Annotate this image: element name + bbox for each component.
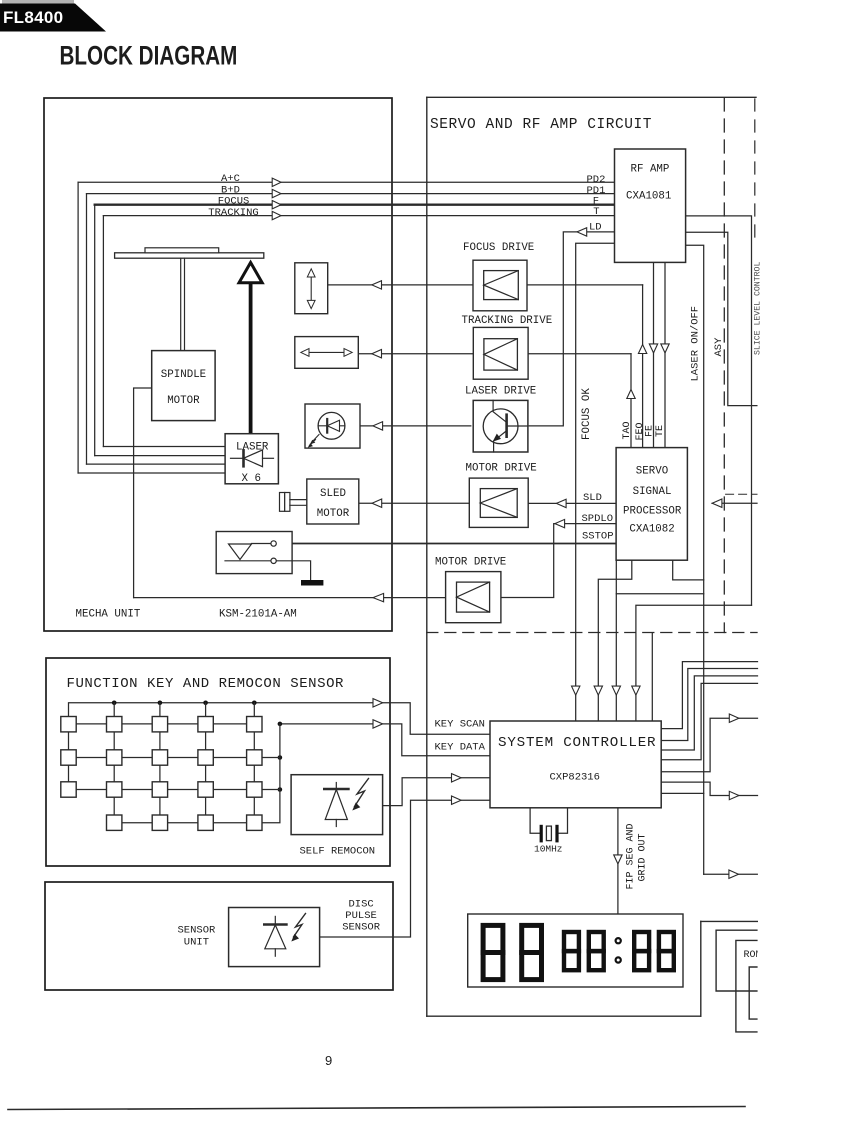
LD wire transistor to RF amp — [529, 232, 614, 426]
servo circuit boundary left vertical (solid, runs to FIP enclosure bottom) — [426, 97, 428, 1016]
controller output 6 — [661, 782, 757, 795]
matrix connector horizontals — [76, 724, 246, 823]
FIP enclosure link to ROM area — [701, 920, 758, 922]
branch from servo corner to right riser — [616, 593, 703, 595]
svg-text:RF AMP: RF AMP — [631, 164, 670, 176]
RF output B — [686, 232, 757, 405]
wire to laser pin3 — [87, 463, 226, 465]
transistor Q1 — [483, 409, 518, 444]
arrow line2 down — [594, 686, 602, 695]
FEO riser — [642, 285, 644, 448]
arrow TRACKING — [272, 211, 281, 219]
arrow LD — [577, 228, 587, 236]
wire to laser pin4 — [78, 472, 225, 474]
arrow A+C — [272, 178, 281, 186]
svg-text:B+D: B+D — [221, 184, 240, 196]
svg-text:PULSE: PULSE — [345, 910, 377, 922]
tracking drive box — [473, 327, 528, 379]
arrow LD into laser diode — [373, 422, 383, 430]
laser beam path (bold) — [249, 280, 253, 434]
svg-text:SLICE LEVEL CONTROL: SLICE LEVEL CONTROL — [754, 262, 763, 355]
svg-text:MOTOR: MOTOR — [167, 395, 200, 407]
disc pulse photodiode D2 — [274, 916, 276, 924]
arrow TAO up — [627, 390, 635, 399]
motor drive 1 box — [469, 478, 528, 527]
RF AMP box — [615, 149, 686, 262]
arrow KEY DATA — [373, 720, 383, 728]
arrow sled drive — [372, 499, 382, 507]
svg-text:SPINDLE: SPINDLE — [161, 369, 206, 381]
svg-text:SIGNAL: SIGNAL — [633, 486, 672, 498]
arrow spindle drive — [373, 593, 384, 601]
spindle shaft — [180, 258, 182, 350]
controller output 4 — [661, 683, 757, 759]
svg-text:KSM-2101A-AM: KSM-2101A-AM — [219, 609, 297, 621]
controller output 2 — [661, 669, 757, 741]
laser diode emission arrows — [312, 435, 320, 443]
svg-text:9: 9 — [325, 1053, 332, 1068]
svg-text:TRACKING DRIVE: TRACKING DRIVE — [462, 315, 553, 327]
servo circuit boundary top — [427, 96, 756, 98]
arrow disc pulse — [452, 796, 462, 804]
svg-text:FUNCTION KEY AND REMOCON SENSO: FUNCTION KEY AND REMOCON SENSOR — [67, 676, 345, 692]
svg-text:MOTOR DRIVE: MOTOR DRIVE — [466, 463, 537, 475]
svg-text:SYSTEM CONTROLLER: SYSTEM CONTROLLER — [498, 735, 656, 751]
servo signal processor box — [616, 448, 687, 561]
servo circuit dashed right edge (ASY boundary) — [723, 98, 725, 633]
focus drive box — [473, 260, 527, 311]
svg-text:SELF REMOCON: SELF REMOCON — [300, 846, 376, 858]
svg-text:A+C: A+C — [221, 173, 240, 185]
digit 3 (small 8) — [564, 932, 579, 951]
FIP display box — [468, 914, 683, 987]
servo stub to controller line2 — [598, 560, 632, 721]
arrow line4 down — [632, 686, 640, 695]
svg-text:SERVO AND RF AMP CIRCUIT: SERVO AND RF AMP CIRCUIT — [430, 117, 652, 133]
arrow remocon — [452, 774, 462, 782]
svg-text:LASER DRIVE: LASER DRIVE — [465, 386, 536, 398]
svg-text:FIP SEG AND: FIP SEG AND — [626, 823, 637, 889]
RF-return line to controller line4 — [636, 605, 752, 721]
mecha unit outer box — [44, 98, 392, 631]
svg-text:10MHz: 10MHz — [534, 844, 563, 855]
laser diode symbol — [231, 457, 244, 459]
svg-text:GRID OUT: GRID OUT — [638, 833, 649, 881]
RF output A to slice level — [686, 216, 752, 605]
controller output 7 joining right bus — [661, 792, 704, 794]
arrow FOCUS OK down — [572, 686, 580, 695]
sled motor box — [307, 479, 359, 524]
svg-text:SSTOP: SSTOP — [582, 531, 614, 543]
focus actuator box — [295, 263, 328, 314]
svg-text:SENSOR: SENSOR — [342, 922, 381, 934]
limit switch box — [216, 532, 292, 574]
switch contact lower — [225, 560, 271, 562]
svg-text:SENSOR: SENSOR — [178, 925, 217, 937]
crystal X1 stubs — [530, 809, 540, 834]
key scan bus dots — [112, 701, 282, 792]
digit 2 (large 8) — [522, 925, 542, 952]
arrow line3 down — [612, 686, 620, 695]
arrow FOCUS — [272, 201, 281, 209]
KEY SCAN wire — [69, 703, 491, 734]
svg-text:TRACKING: TRACKING — [208, 207, 258, 219]
TE wire RF to servo — [664, 262, 666, 447]
wire to ground — [276, 561, 310, 580]
svg-text:UNIT: UNIT — [184, 937, 209, 949]
wire motor drive 2 to SPDLO riser — [501, 524, 616, 598]
tracking drive amp — [484, 339, 518, 370]
motor drive 1 amp — [480, 489, 517, 518]
FIP enclosure bottom — [427, 1015, 701, 1017]
arrow servo right input — [712, 499, 722, 507]
FE wire RF to servo — [653, 262, 655, 447]
svg-text:X 6: X 6 — [242, 473, 261, 485]
arrow tracking actuator — [372, 350, 382, 358]
svg-text:FL8400: FL8400 — [3, 8, 63, 27]
wire A+C horizontal — [78, 181, 614, 183]
wire to laser pin1 — [103, 446, 225, 448]
focus actuator arrow — [310, 274, 312, 304]
controller output 3 — [661, 676, 757, 750]
svg-text:TE: TE — [655, 425, 666, 437]
LD wire to laser diode — [360, 425, 471, 427]
svg-text:MECHA UNIT: MECHA UNIT — [76, 609, 141, 621]
svg-text:ROM: ROM — [744, 950, 762, 961]
remocon IR bolt — [355, 779, 369, 807]
arrow SPDLO — [555, 519, 565, 527]
svg-text:SLD: SLD — [583, 492, 602, 504]
svg-text:SLED: SLED — [320, 488, 346, 500]
bus to ROM area — [704, 873, 758, 875]
wire to laser pin2 — [95, 455, 225, 457]
self remocon box — [291, 775, 383, 835]
digit 5 (small 8) — [634, 932, 649, 951]
svg-text:ASY: ASY — [713, 337, 725, 357]
arrow FE down — [649, 344, 657, 353]
digit 4 (small 8) — [589, 932, 604, 951]
key data right bus — [262, 724, 280, 823]
rom outer box — [716, 930, 760, 991]
svg-text:FOCUS: FOCUS — [218, 196, 250, 208]
matrix connector verticals — [69, 703, 255, 815]
svg-text:SPDLO: SPDLO — [582, 513, 614, 525]
svg-text:LD: LD — [589, 222, 602, 234]
svg-text:KEY DATA: KEY DATA — [435, 742, 486, 754]
arrow FEO up — [638, 345, 646, 354]
svg-text:KEY SCAN: KEY SCAN — [435, 719, 485, 731]
svg-text:CXA1082: CXA1082 — [629, 523, 674, 535]
FIP segment wire — [617, 809, 619, 915]
LASER ON/OFF wire — [673, 560, 704, 580]
arrow output 6 — [729, 791, 739, 799]
sensor unit outer box — [45, 882, 393, 990]
controller output 1 — [661, 662, 757, 729]
SLD wire — [528, 502, 616, 504]
svg-text:TAO: TAO — [622, 421, 633, 439]
colon — [616, 938, 621, 943]
laser unit box — [225, 434, 278, 484]
disc pulse IR bolt — [294, 914, 306, 938]
ROM box — [736, 940, 760, 1032]
servo circuit dashed bottom — [427, 632, 757, 634]
function key outer box — [46, 658, 390, 866]
laser diode unit box — [305, 404, 360, 448]
ground — [301, 580, 323, 586]
digit 6 (small 8) — [659, 932, 674, 951]
digit 1 (large 8) — [483, 925, 503, 952]
arrow TE down — [661, 344, 669, 353]
svg-text:PROCESSOR: PROCESSOR — [623, 506, 682, 518]
remocon wire — [383, 778, 490, 806]
svg-text:BLOCK DIAGRAM: BLOCK DIAGRAM — [60, 41, 238, 71]
arrow output 5 — [729, 714, 739, 722]
dashed stub right — [726, 493, 757, 495]
switch triangle — [229, 544, 252, 560]
tracking actuator wire — [358, 353, 631, 355]
laser diode circle — [318, 412, 345, 439]
disc — [145, 248, 219, 253]
svg-text:LASER: LASER — [236, 442, 269, 454]
focus drive amp — [484, 271, 519, 300]
arrow FIP down — [614, 855, 622, 864]
second dashed box left edge (cut off at page edge) — [754, 99, 756, 237]
svg-text:CXA1081: CXA1081 — [626, 191, 671, 203]
wire B+D horizontal — [87, 193, 615, 195]
svg-text:FOCUS OK: FOCUS OK — [581, 388, 593, 440]
svg-text:MOTOR: MOTOR — [317, 508, 350, 520]
wire TRACKING horizontal — [103, 215, 614, 217]
controller output 5 — [661, 718, 757, 772]
disc pulse sensor box — [229, 908, 320, 967]
arrow B+D — [272, 189, 281, 197]
remocon photodiode D1 — [335, 783, 337, 790]
tracking actuator box — [295, 337, 359, 369]
key switches — [61, 717, 262, 831]
spindle motor box — [152, 351, 215, 421]
KEY DATA wire — [280, 724, 490, 756]
svg-text:CXP82316: CXP82316 — [550, 772, 600, 784]
page banner — [2, 0, 74, 4]
spindle drive wire (to lower motor drive) — [134, 597, 446, 599]
svg-text:DISC: DISC — [349, 899, 374, 911]
svg-text:T: T — [593, 206, 599, 218]
arrow focus actuator — [372, 281, 382, 289]
laser on/off & bus riser — [686, 245, 704, 874]
wire bundle vertical 1 — [77, 182, 79, 473]
wire FOCUS horizontal (thick) — [95, 204, 615, 206]
crystal X1 — [540, 826, 543, 840]
switch contact upper — [252, 543, 271, 545]
TAO riser — [630, 354, 632, 448]
spindle motor feed wire — [134, 388, 152, 598]
arrow ROM bus — [729, 870, 739, 878]
ROM area (clipped at page cut) — [716, 930, 761, 1032]
FIP enclosure right edge — [700, 921, 702, 1016]
disc platter — [115, 253, 264, 258]
wire bundle vertical 2 — [86, 194, 88, 465]
tracking actuator arrow — [306, 351, 348, 353]
controller line5 from dashed boundary — [651, 633, 653, 721]
disc pulse wire — [320, 800, 490, 937]
wire bundle vertical 3 — [94, 205, 96, 456]
ram box — [749, 967, 760, 1019]
svg-text:MOTOR DRIVE: MOTOR DRIVE — [435, 557, 506, 569]
laser drive box — [473, 400, 528, 452]
servo corner line to controller line3 — [615, 560, 617, 721]
servo right input wire — [712, 502, 757, 504]
system controller box — [490, 721, 661, 808]
arrow KEY SCAN — [373, 699, 383, 707]
sled drive wire — [359, 502, 470, 504]
motor drive 2 amp — [457, 582, 490, 612]
svg-text:LASER ON/OFF: LASER ON/OFF — [690, 306, 702, 382]
sled rack symbol — [280, 493, 285, 512]
arrow SLD — [556, 499, 566, 507]
focus actuator wire — [328, 284, 643, 286]
SSTOP wire — [276, 543, 616, 545]
motor drive 2 box — [446, 572, 501, 623]
FOCUS OK wire — [576, 243, 615, 721]
wire bundle vertical 4 — [102, 216, 104, 447]
svg-text:FOCUS DRIVE: FOCUS DRIVE — [463, 242, 534, 254]
bottom rule — [8, 1107, 745, 1110]
svg-text:SERVO: SERVO — [636, 466, 668, 478]
laser beam arrowhead — [239, 263, 262, 283]
